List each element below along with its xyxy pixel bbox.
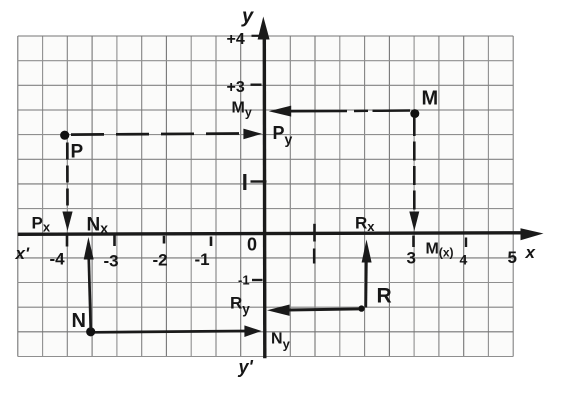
- svg-text:M: M: [422, 88, 439, 110]
- tick -1: [210, 237, 213, 247]
- point R corner: [358, 305, 364, 311]
- arrow M to Mx (dashed): [409, 117, 419, 231]
- arrow N to Ny (solid, right): [95, 325, 262, 337]
- arrow P to Py (dashed): [71, 129, 262, 140]
- tick +1 dashed: [313, 224, 316, 264]
- svg-text:5: 5: [508, 248, 517, 267]
- svg-text:3: 3: [407, 249, 416, 268]
- tick +3: [412, 236, 415, 248]
- svg-text:-4: -4: [50, 250, 66, 269]
- svg-text:4: 4: [460, 252, 468, 268]
- svg-text:x': x': [15, 244, 30, 263]
- arrow P to Px (dashed): [62, 143, 72, 232]
- arrow M to My (dashed segments): [269, 106, 410, 117]
- tick y=+1: [251, 180, 267, 182]
- svg-text:P: P: [71, 142, 84, 163]
- point P: [60, 131, 69, 140]
- point N: [86, 327, 95, 336]
- svg-text:+3: +3: [227, 79, 245, 96]
- y-axis: [258, 17, 270, 359]
- label 1 (y-axis): [243, 174, 246, 190]
- point M: [410, 109, 419, 118]
- arrow R to Rx (solid, up): [362, 240, 372, 308]
- tick -4: [66, 235, 69, 247]
- svg-text:N: N: [72, 310, 86, 332]
- svg-text:x: x: [525, 243, 537, 262]
- svg-text:y: y: [241, 6, 254, 28]
- svg-text:0: 0: [247, 235, 257, 255]
- svg-text:-1: -1: [195, 250, 210, 269]
- svg-text:-1: -1: [238, 273, 250, 288]
- tick -3: [113, 236, 116, 247]
- tick y=+3: [251, 83, 262, 85]
- svg-text:+4: +4: [227, 31, 245, 48]
- tick y=-1: [252, 279, 263, 281]
- svg-text:R: R: [377, 285, 392, 308]
- tick y=+4: [252, 35, 262, 37]
- arrow N to Nx (solid, up): [84, 237, 94, 329]
- tick -2: [163, 236, 166, 244]
- grid paper: [18, 36, 513, 357]
- arrow R to Ry (solid, left): [267, 305, 359, 316]
- svg-text:-2: -2: [153, 251, 168, 270]
- svg-text:y': y': [238, 357, 254, 377]
- x-axis: [18, 228, 544, 240]
- tick +4: [465, 238, 467, 248]
- svg-text:-3: -3: [104, 252, 119, 271]
